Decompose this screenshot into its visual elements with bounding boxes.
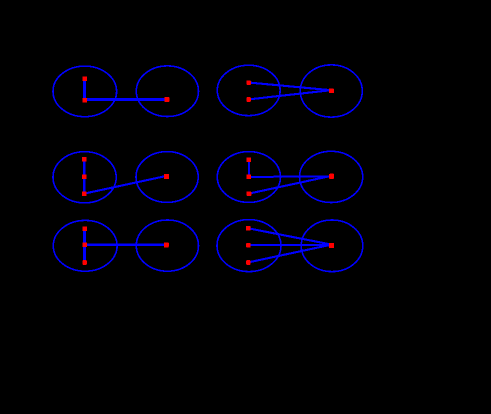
- wire edge g1-g2 (short vertical): [248, 160, 250, 177]
- node l1: [329, 243, 334, 248]
- ellipse set G3-right (row 2, pair 1): [136, 152, 198, 203]
- node i3: [82, 260, 87, 265]
- ellipse set G4-right (row 2, pair 2): [300, 151, 363, 202]
- ellipse set G2-right (row 1, pair 2): [300, 65, 362, 117]
- wire edge g2-h1 (horizontal): [249, 175, 332, 178]
- ellipse set G2-left (row 1, pair 2): [217, 65, 280, 115]
- node j1: [164, 242, 169, 247]
- wire edge k2-l1: [248, 244, 331, 246]
- wire edge k3-l1: [248, 245, 331, 263]
- node k2: [246, 243, 251, 248]
- node k1: [246, 226, 251, 231]
- node h1: [329, 174, 334, 179]
- node i1: [82, 226, 87, 231]
- wire edge a1-a2 (row 1 pair 1 vertical): [83, 79, 86, 100]
- node e3: [82, 191, 87, 196]
- node a2: [82, 98, 87, 103]
- wire edge i2-j1 (horizontal): [85, 244, 167, 246]
- node e1: [82, 157, 87, 162]
- ellipse set G1-left (row 1, pair 1): [53, 66, 117, 117]
- node c2: [246, 97, 251, 102]
- wire edge e3-f1 (diagonal): [84, 176, 167, 194]
- wire edge e1-e3 (row 2 pair 1 vertical through e2): [83, 159, 86, 194]
- wire edge a2-b1 (row 1 pair 1 horizontal): [85, 98, 167, 101]
- node g1: [246, 157, 251, 162]
- node c1: [246, 80, 251, 85]
- node e2: [82, 174, 87, 179]
- node g3: [247, 191, 252, 196]
- ellipse set G5-left (row 3, pair 1): [53, 220, 117, 271]
- node d1: [329, 89, 334, 93]
- ellipse set G6-right (row 3, pair 2): [301, 220, 363, 272]
- ellipse set G5-right (row 3, pair 1): [136, 220, 198, 271]
- ellipse set G1-right (row 1, pair 1): [136, 66, 198, 117]
- wire edge k1-l1: [248, 228, 331, 244]
- node f1: [164, 174, 169, 179]
- node a1: [82, 76, 87, 81]
- ellipse set G4-left (row 2, pair 2): [217, 152, 280, 203]
- node i2: [82, 242, 87, 247]
- wire edge i1-i3 (vertical through i2): [83, 229, 86, 263]
- node g2: [246, 174, 251, 179]
- node b1: [164, 97, 169, 102]
- node k3: [246, 260, 251, 265]
- ellipse set G3-left (row 2, pair 1): [53, 152, 116, 203]
- wire edge g3-h1 (diagonal): [249, 176, 332, 194]
- wire edge c1-d1: [249, 83, 332, 91]
- wire edge c2-d1: [249, 90, 332, 99]
- ellipse set G6-left (row 3, pair 2): [217, 220, 281, 272]
